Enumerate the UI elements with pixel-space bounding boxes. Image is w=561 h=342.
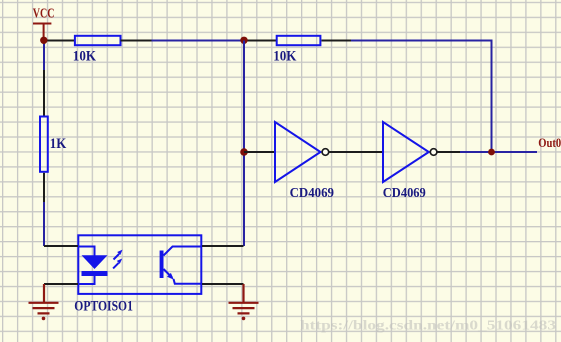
ground symbol right dot	[242, 317, 246, 321]
resistor R1 10K body	[75, 36, 121, 45]
inverter U2 output bubble	[430, 149, 437, 156]
resistor 1K pin bottom	[43, 173, 45, 202]
resistor 1K body	[40, 117, 48, 172]
inverter U1 input pin	[244, 151, 275, 153]
wire output net	[460, 151, 537, 153]
ground symbol left	[29, 284, 59, 313]
svg-text:1K: 1K	[50, 136, 67, 152]
svg-text:CD4069: CD4069	[383, 186, 426, 201]
optocoupler pin cathode (left bottom)	[44, 283, 78, 285]
wire 1K to optocoupler	[43, 202, 45, 246]
optocoupler light arrow upper	[114, 250, 123, 260]
resistor R2 10K pin left	[244, 40, 276, 42]
optocoupler OPTOISO1 body box	[78, 235, 201, 294]
optocoupler phototransistor collector lead	[164, 247, 203, 256]
wire U1 output to U2 input	[329, 151, 383, 153]
svg-text:https://blog.csdn.net/m0_51061: https://blog.csdn.net/m0_51061483	[300, 319, 556, 334]
ground symbol left dot	[42, 317, 46, 321]
svg-text:OPTOISO1: OPTOISO1	[74, 299, 133, 315]
optocoupler light arrow lower	[113, 259, 122, 269]
wire feedback column	[243, 41, 245, 247]
optocoupler LED anode lead	[78, 247, 95, 256]
svg-text:Out0: Out0	[538, 136, 561, 150]
resistor R2 10K body	[277, 36, 321, 45]
optocoupler pin anode (left top)	[44, 245, 78, 247]
wire R1 to middle junction	[152, 40, 245, 42]
optocoupler phototransistor base bar	[160, 251, 164, 279]
junction dot inverter input node	[240, 148, 248, 156]
resistor R1 10K pin left	[44, 40, 74, 42]
ground symbol right	[229, 284, 259, 313]
optocoupler pin emitter (right bottom)	[202, 283, 244, 285]
wire VCC junction to R1 vertical drop	[43, 41, 45, 71]
junction dot at VCC node	[40, 37, 47, 44]
svg-text:10K: 10K	[73, 48, 96, 64]
junction dot feedback node	[240, 37, 247, 44]
svg-text:VCC: VCC	[33, 7, 55, 22]
power symbol VCC	[33, 24, 51, 41]
resistor 1K pin top	[43, 70, 45, 116]
wire R2 to output column	[351, 41, 492, 153]
optocoupler LED cathode lead	[78, 276, 95, 284]
resistor R2 10K pin right	[322, 40, 352, 42]
inverter U2 CD4069 triangle	[383, 122, 429, 182]
junction dot output node	[488, 149, 495, 156]
svg-text:10K: 10K	[273, 48, 296, 64]
resistor R1 10K pin right	[121, 40, 152, 42]
optocoupler pin collector (right top)	[202, 245, 244, 247]
inverter U1 output bubble	[322, 149, 329, 156]
optocoupler phototransistor emitter lead	[164, 269, 203, 284]
inverter U1 CD4069 triangle	[275, 122, 321, 182]
inverter U2 output pin	[438, 151, 461, 153]
svg-text:CD4069: CD4069	[290, 186, 334, 201]
optocoupler LED triangle	[82, 255, 108, 269]
optocoupler LED cathode bar	[82, 271, 108, 276]
